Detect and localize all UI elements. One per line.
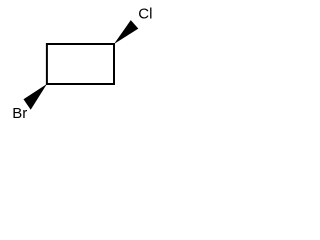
- cyclobutane ring: [47, 44, 114, 84]
- wedge bond to Cl: [114, 20, 138, 44]
- wedge bond to Br: [24, 84, 47, 110]
- svg-text:Cl: Cl: [138, 6, 152, 23]
- svg-text:Br: Br: [12, 105, 27, 122]
